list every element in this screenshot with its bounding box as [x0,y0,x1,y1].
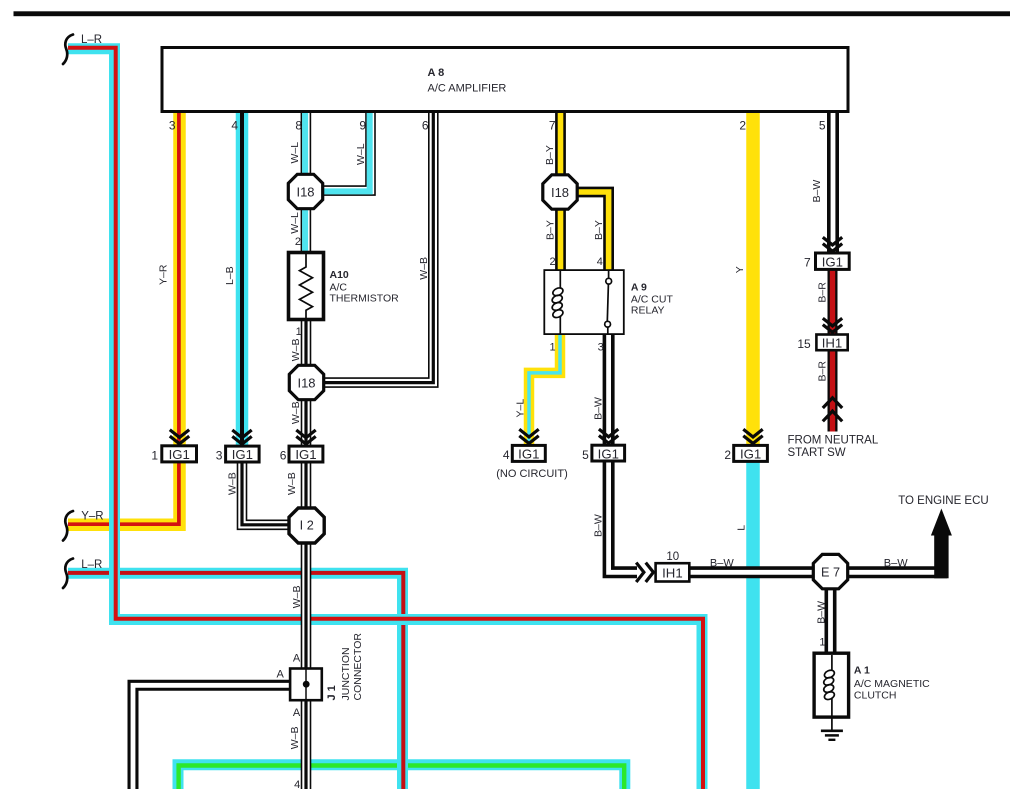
arrow into 5 IG1 [599,429,618,443]
svg-text:A 9: A 9 [631,282,647,294]
svg-text:4: 4 [503,448,510,462]
svg-text:6: 6 [280,448,287,462]
wire W-B (below 3 IG1 down and right to I 2) [242,461,290,525]
svg-text:THERMISTOR: THERMISTOR [330,293,400,305]
svg-text:(NO CIRCUIT): (NO CIRCUIT) [496,468,568,480]
svg-text:IG1: IG1 [518,447,539,462]
svg-text:6: 6 [422,118,429,132]
svg-text:CLUTCH: CLUTCH [854,690,897,702]
svg-text:1: 1 [151,448,158,462]
connector 7 IG1 [816,253,850,269]
wire W-B (thermistor pin 1 down through I18, 6 IG1, I 2, J1 to page bottom) [301,319,312,789]
svg-text:FROM NEUTRAL: FROM NEUTRAL [788,435,879,447]
A1 coil [823,655,836,716]
svg-text:A/C AMPLIFIER: A/C AMPLIFIER [428,83,507,95]
wire L (below 2 IG1 to page bottom) [746,461,760,789]
connector 5 IG1 [592,445,625,461]
svg-text:3: 3 [216,448,223,462]
wire Y-R (A8 pin 3 down to 1 IG1 and out to left brace) [68,110,180,525]
svg-text:1: 1 [296,326,302,338]
svg-text:15: 15 [797,337,811,351]
svg-text:L: L [735,525,747,531]
svg-text:4: 4 [294,779,300,789]
svg-text:3: 3 [598,342,604,354]
svg-text:8: 8 [295,118,302,132]
svg-text:L–B: L–B [224,266,236,285]
svg-text:W–L: W–L [289,212,301,234]
resistor zigzag A10 [300,254,313,318]
wire B-W (below 5 IG1 down and right to 10 IH1) [609,461,637,572]
svg-text:Y–R: Y–R [81,511,103,523]
svg-text:W–L: W–L [355,143,367,165]
wire B-Y (A8 pin 7 through I18 to relay pin 2) [555,110,566,272]
svg-text:4: 4 [231,118,238,132]
svg-text:JUNCTION: JUNCTION [340,647,352,700]
svg-text:B–R: B–R [817,282,829,303]
connector I18 (lower, thermistor return) [289,365,323,399]
svg-text:IG1: IG1 [169,447,190,462]
svg-text:I18: I18 [551,185,569,200]
arrow into 1 IG1 [170,430,189,444]
svg-text:A 1: A 1 [854,665,870,677]
svg-text:IG1: IG1 [295,447,316,462]
svg-text:A: A [276,669,284,681]
svg-text:Y: Y [734,266,746,273]
A/C amplifier A8 box [162,48,848,112]
svg-text:TO ENGINE ECU: TO ENGINE ECU [898,495,989,507]
svg-text:W–B: W–B [290,401,302,424]
wire L-B (A8 pin 4 down to 3 IG1) [236,110,249,446]
connector 1 IG1 [162,446,197,462]
svg-text:J 1: J 1 [326,685,338,700]
svg-text:7: 7 [549,118,556,132]
arrow into 7 IG1 [823,237,842,251]
connector E 7 [813,554,847,588]
svg-text:B–Y: B–Y [593,220,605,240]
relay switch [605,271,612,334]
top border bar [14,11,1010,16]
junction connector J1 box [290,669,322,701]
wire B-W (10 IH1 to E 7) [688,566,815,578]
to engine ecu arrow shaft [934,531,948,578]
wire B-R (below 15 IH1 from neutral start sw) [828,349,838,432]
svg-text:W–B: W–B [290,339,302,362]
svg-text:3: 3 [169,118,176,132]
arrow into 6 IG1 [296,430,315,444]
svg-text:IH1: IH1 [662,565,683,580]
connector I 2 [289,508,324,543]
svg-text:B–Y: B–Y [544,145,556,165]
J1 inner wire [305,669,307,701]
svg-text:A10: A10 [330,269,349,281]
wire L-G (bottom U-shaped green-core wire) [178,765,625,789]
svg-text:B–Y: B–Y [545,220,557,240]
svg-text:W–B: W–B [227,472,239,495]
svg-text:IG1: IG1 [740,447,761,462]
svg-text:IH1: IH1 [822,336,843,351]
thermistor A10 box [289,253,324,320]
svg-text:B–W: B–W [593,514,605,537]
relay coil [551,271,564,334]
svg-text:2: 2 [724,448,731,462]
wire B-Y (I18 right side over and down to relay pin 4) [572,192,609,272]
svg-text:Y–L: Y–L [515,399,527,418]
wire B-W (E 7 right toward engine ecu arrow) [846,566,947,578]
brace L-R second [63,559,73,589]
svg-text:L–R: L–R [81,34,102,46]
svg-text:B–W: B–W [811,180,823,203]
svg-text:B–W: B–W [884,558,908,570]
connector 6 IG1 [289,446,323,462]
wire B-R (7 IG1 down to 15 IH1) [828,268,838,336]
svg-text:5: 5 [819,118,826,132]
connector I18 (pin 7 branch) [543,175,577,209]
svg-text:2: 2 [549,256,555,268]
svg-text:L–R: L–R [81,559,102,571]
svg-text:B–R: B–R [817,361,829,382]
connector 15 IH1 [816,335,847,351]
svg-text:E 7: E 7 [821,565,840,579]
wire W-L (A8 pin 9 down and left to I18) [324,110,371,191]
svg-text:W–B: W–B [286,472,298,495]
svg-text:A 8: A 8 [428,67,445,79]
svg-text:W–B: W–B [289,727,301,750]
connector 3 IG1 [226,446,260,462]
ground lead [831,717,833,730]
arrow into 3 IG1 [232,430,251,444]
arrow into 2 IG1 [743,429,762,443]
connector 4 IG1 [512,445,545,461]
svg-text:2: 2 [739,118,746,132]
svg-text:IG1: IG1 [598,447,619,462]
J1 junction dot [303,681,310,688]
svg-text:7: 7 [804,255,811,269]
to engine ecu arrowhead [931,509,952,536]
svg-text:W–B: W–B [291,586,303,609]
svg-text:5: 5 [582,448,589,462]
arrows into 10 IH1 [636,563,653,582]
connector 2 IG1 [734,445,768,461]
svg-text:Y–R: Y–R [158,264,170,285]
svg-text:B–W: B–W [816,601,828,624]
svg-text:W–B: W–B [418,257,430,280]
A/C magnetic clutch A1 box [814,653,849,717]
svg-text:START SW: START SW [788,447,846,459]
svg-text:I18: I18 [297,375,315,390]
brace Y-R [63,511,73,541]
arrow into 15 IH1 [823,318,842,332]
svg-text:IG1: IG1 [232,447,253,462]
wire B-W (A8 pin 5 down to 7 IG1) [827,110,839,254]
svg-text:CONNECTOR: CONNECTOR [352,633,364,701]
svg-text:IG1: IG1 [822,254,843,269]
svg-text:9: 9 [359,118,366,132]
connector 10 IH1 [656,563,690,581]
svg-text:A: A [293,653,301,665]
wire Y (A8 pin 2 down to 2 IG1) [746,110,760,446]
svg-text:RELAY: RELAY [631,305,665,317]
svg-text:A/C MAGNETIC: A/C MAGNETIC [854,678,930,690]
svg-text:2: 2 [295,236,301,248]
svg-text:W–L: W–L [289,142,301,164]
wire W-B (A8 pin 6 down and left to I18) [324,110,433,383]
svg-text:B–W: B–W [593,397,605,420]
svg-text:4: 4 [597,256,603,268]
svg-text:1: 1 [819,637,825,649]
svg-text:I18: I18 [296,184,314,199]
wire W-L (A8 pin 8 down through I18 to thermistor pin 2) [300,110,311,254]
svg-text:B–W: B–W [710,558,734,570]
svg-text:10: 10 [666,551,679,563]
svg-text:A: A [293,707,301,719]
brace L-R top [63,35,73,65]
wire W (J1 left side out and down to page bottom) [133,685,290,789]
arrow into 4 IG1 [519,429,538,443]
wire Y-L (relay pin 1 down-left to 4 IG1) [529,332,560,446]
wire L-R (second left entry, across to x405, down to bottom) [68,573,403,789]
wire B-W (E 7 down to A1 clutch) [825,587,837,656]
A/C cut relay A9 box [544,270,624,334]
connector I18 (upper, pins 8/9) [288,174,322,208]
ground symbol [821,731,843,740]
svg-text:1: 1 [549,342,555,354]
wire B-W (relay pin 3 down to 5 IG1) [603,332,615,446]
arrows up from neutral start sw [823,398,842,422]
svg-text:I 2: I 2 [300,519,314,533]
wire L-R (top-left entry, down left side, across bottom, down to page bottom) [68,48,703,789]
